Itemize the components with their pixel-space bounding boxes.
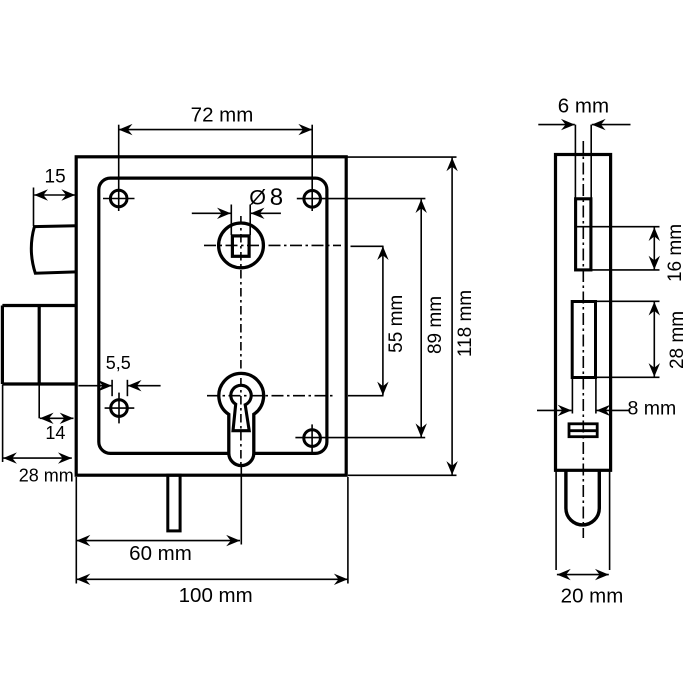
dimension 28 mm extension line bbox=[2, 385, 4, 463]
spindle hole circle bbox=[219, 223, 264, 268]
16 mm hole top line bbox=[575, 226, 660, 228]
dimension 5,5 extension lines bbox=[111, 380, 113, 396]
dimension Ø 8 arrows bbox=[192, 212, 231, 214]
dimension 60 mm bbox=[77, 540, 241, 542]
svg-text:118 mm: 118 mm bbox=[455, 290, 476, 357]
dimension 6 mm arrows bbox=[538, 124, 575, 126]
dimension 14 bbox=[40, 417, 74, 419]
svg-text:20 mm: 20 mm bbox=[561, 585, 624, 608]
svg-text:72 mm: 72 mm bbox=[191, 104, 254, 127]
svg-text:16 mm: 16 mm bbox=[665, 224, 686, 282]
left extension line below body bbox=[75, 477, 77, 584]
bolt stem midline bbox=[569, 429, 597, 432]
screw hole top-left bbox=[110, 190, 127, 207]
svg-text:15: 15 bbox=[45, 167, 66, 188]
bolt stem cross-section rectangle bbox=[569, 424, 597, 437]
dimension 8 mm arrows bbox=[537, 409, 572, 411]
svg-text:14: 14 bbox=[45, 423, 65, 443]
keyhole outer shape (circle merged with rounded slot) bbox=[219, 373, 264, 465]
dimension 28 mm (side) bbox=[653, 302, 655, 377]
dimension 100 mm bbox=[77, 578, 348, 580]
dimension 60 mm extension line (keyhole) bbox=[240, 466, 242, 545]
spindle horizontal centerline bbox=[204, 244, 341, 246]
screw hole bottom-right vertical cross bbox=[311, 424, 313, 454]
bottom latch bar bbox=[168, 475, 180, 531]
dimension 118 mm extension lines bbox=[347, 156, 456, 158]
dimension 5,5 arrows bbox=[78, 385, 111, 387]
faceplate rounded rectangle bbox=[99, 178, 327, 453]
svg-text:8 mm: 8 mm bbox=[628, 398, 677, 420]
dimension 100 mm extension line bbox=[347, 477, 349, 584]
svg-text:28 mm: 28 mm bbox=[667, 311, 688, 369]
svg-text:5,5: 5,5 bbox=[106, 353, 131, 373]
dimension 16 mm bbox=[653, 227, 655, 269]
svg-text:8: 8 bbox=[270, 184, 283, 211]
dimension 72 mm bbox=[119, 129, 313, 131]
svg-text:6 mm: 6 mm bbox=[558, 95, 609, 118]
side view vertical centerline bbox=[582, 141, 584, 538]
deadbolt head division line bbox=[38, 306, 41, 385]
dimension 89 mm bbox=[420, 199, 422, 437]
deadbolt left edge bbox=[1, 306, 4, 385]
dimension 20 mm bbox=[557, 574, 609, 576]
svg-text:55 mm: 55 mm bbox=[386, 295, 407, 353]
dimension 55 mm extension segments bbox=[351, 245, 384, 247]
screw hole top-right bbox=[304, 191, 321, 208]
dimension 28 mm bbox=[3, 457, 72, 459]
dimension 14 extension line bbox=[38, 384, 40, 418]
dimension 118 mm bbox=[451, 158, 453, 475]
latch bolt slot with rounded bottom (side) bbox=[566, 470, 599, 525]
svg-text:28 mm: 28 mm bbox=[19, 466, 74, 486]
dimension Ø 8 extension lines bbox=[230, 205, 232, 236]
dimension 15 bbox=[34, 194, 75, 196]
deadbolt bottom edge bbox=[2, 382, 76, 385]
screw hole bottom-left cross bbox=[105, 407, 135, 409]
svg-text:Ø: Ø bbox=[249, 186, 266, 210]
svg-text:100 mm: 100 mm bbox=[179, 584, 253, 607]
svg-text:60 mm: 60 mm bbox=[129, 542, 192, 565]
28 mm extension lines bbox=[596, 300, 660, 302]
screw hole top-left cross line bbox=[103, 198, 135, 200]
spindle/keyhole vertical centerline bbox=[240, 216, 242, 466]
keyhole inner keyway (circle merged with flared slot) bbox=[231, 385, 251, 430]
latch bolt sides below body (side view) bbox=[555, 470, 557, 570]
spindle slot rectangle (side) bbox=[576, 199, 591, 270]
latch bolt (left, curved face) bbox=[31, 226, 76, 273]
dimension 89 mm extension lines bbox=[297, 198, 426, 200]
slot lines below 28 mm hole bbox=[571, 378, 573, 414]
16 mm hole bottom extension bbox=[591, 269, 659, 271]
spindle square 8 mm bbox=[232, 236, 249, 256]
lock body outline (front view) bbox=[76, 157, 346, 475]
dimension 15 extension line bbox=[33, 188, 35, 227]
dimension 55 mm bbox=[382, 246, 384, 395]
keyhole horizontal centerline bbox=[207, 395, 335, 397]
screw hole bottom-right bbox=[304, 430, 321, 447]
28 mm hole rectangle (side) bbox=[572, 302, 595, 378]
svg-text:89 mm: 89 mm bbox=[425, 296, 446, 354]
dimension 72 mm extension lines bbox=[118, 125, 120, 211]
deadbolt top edge bbox=[2, 304, 76, 307]
side view body outline bbox=[556, 155, 611, 471]
spindle shaft lines (side) bbox=[574, 125, 576, 199]
screw hole bottom-left bbox=[111, 400, 128, 417]
